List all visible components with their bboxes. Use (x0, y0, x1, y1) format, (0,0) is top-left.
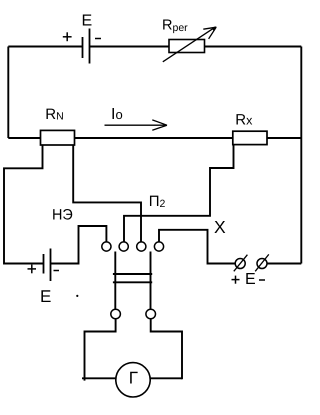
svg-text:E: E (82, 13, 93, 30)
wire terminal T2 to right rail (267, 263, 301, 265)
svg-text:НЭ: НЭ (52, 207, 73, 224)
wire right rail vertical (300, 47, 302, 264)
svg-text:E: E (40, 287, 51, 306)
label + (unknown EMF) (232, 276, 240, 284)
battery E1 (top) (83, 29, 90, 64)
wire top-left horizontal (8, 46, 82, 48)
wire Rx bottom to switch contact 2 (124, 145, 234, 242)
wire battery E1 to rheostat (90, 46, 170, 48)
wire lower contact right to galvanometer (150, 319, 182, 379)
current arrow Io (105, 120, 168, 130)
switch П2 blade left (114, 252, 116, 310)
wire RN bottom to battery E2 (left step) (4, 145, 44, 264)
svg-text:Rx: Rx (235, 112, 253, 129)
switch П2 lower contact right (146, 309, 156, 319)
terminal T1 (left probe) (234, 255, 248, 272)
switch П2 lower contact left (111, 309, 121, 319)
svg-text:X: X (214, 217, 226, 237)
wire lower contact left to galvanometer (82, 319, 116, 381)
switch П2 contact 2 (119, 242, 128, 251)
svg-text:Г: Г (129, 368, 138, 387)
switch П2 crossbar lower (113, 281, 152, 283)
switch П2 contact 3 (137, 242, 146, 251)
resistor Rx (233, 131, 267, 144)
svg-text:Io: Io (111, 106, 123, 123)
wire node RN to Rx (measuring wire) (75, 137, 233, 139)
galvanometer Г (116, 363, 150, 397)
label - (battery E2) (54, 270, 60, 272)
switch П2 blade right (150, 252, 152, 310)
switch П2 crossbar upper (113, 273, 152, 275)
svg-text:RN: RN (45, 106, 63, 123)
switch П2 contact 4 (154, 242, 163, 251)
stray dot (76, 295, 78, 297)
wire left rail vertical (7, 47, 9, 139)
wire rheostat to right rail (205, 46, 302, 48)
label - (battery E1) (95, 38, 101, 40)
terminal T2 (right probe) (255, 254, 269, 271)
resistor RN (41, 130, 75, 145)
rheostat Rper body (169, 40, 205, 53)
label - (unknown EMF) (259, 279, 265, 281)
switch П2 contact 1 (102, 242, 111, 251)
label + (battery E1) (63, 32, 72, 41)
battery E2 (standard cell) (44, 249, 51, 282)
rheostat Rper arrow (163, 27, 217, 62)
label + (battery E2) (28, 265, 37, 274)
wire switch contact 4 to terminal X (159, 230, 235, 264)
wire left rail to RN (8, 137, 40, 139)
wire RN bottom-right to switch contact 3 (73, 145, 141, 242)
svg-text:E: E (245, 271, 256, 288)
svg-text:Rper: Rper (162, 17, 188, 34)
wire battery E2 to switch contact 1 (51, 226, 107, 264)
svg-text:П2: П2 (149, 193, 166, 210)
wire Rx to right rail (267, 137, 301, 139)
